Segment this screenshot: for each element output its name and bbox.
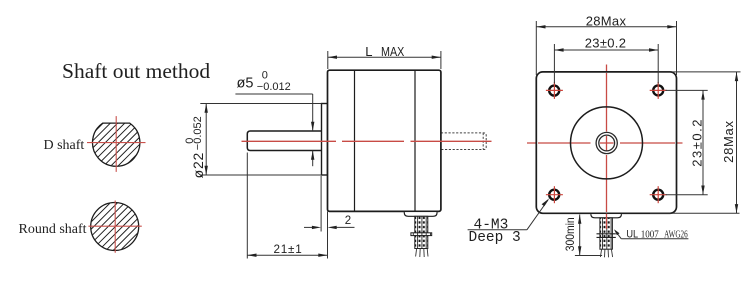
svg-text:D shaft: D shaft bbox=[44, 138, 85, 153]
svg-text:21±1: 21±1 bbox=[273, 243, 302, 256]
svg-text:Round shaft: Round shaft bbox=[19, 222, 87, 237]
svg-text:23±0.2: 23±0.2 bbox=[585, 35, 626, 50]
svg-text:0: 0 bbox=[262, 69, 268, 81]
svg-text:Deep 3: Deep 3 bbox=[469, 230, 521, 246]
svg-text:Shaft out method: Shaft out method bbox=[62, 59, 210, 83]
svg-text:28Max: 28Max bbox=[586, 13, 627, 28]
svg-text:2: 2 bbox=[345, 215, 351, 227]
svg-text:−0.012: −0.012 bbox=[257, 81, 291, 93]
svg-text:300min: 300min bbox=[563, 217, 577, 251]
svg-text:ø22: ø22 bbox=[190, 152, 206, 179]
svg-text:28Max: 28Max bbox=[721, 120, 736, 163]
svg-text:MAX: MAX bbox=[381, 44, 405, 59]
svg-text:−0.052: −0.052 bbox=[192, 116, 204, 150]
svg-text:L: L bbox=[365, 44, 372, 59]
svg-text:ø5: ø5 bbox=[237, 76, 254, 92]
svg-text:23±0.2: 23±0.2 bbox=[690, 118, 705, 167]
